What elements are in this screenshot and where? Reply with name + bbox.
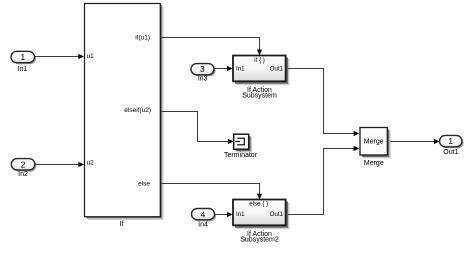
wire Subsystem2 Out1 to Merge in2: [288, 146, 360, 215]
svg-text:if(u1): if(u1): [135, 35, 150, 42]
svg-text:1: 1: [448, 136, 453, 146]
svg-text:In1: In1: [236, 66, 245, 73]
wire In1 to If u1: [35, 54, 85, 59]
svg-text:Out1: Out1: [270, 66, 284, 73]
If Action Subsystem block: [233, 56, 289, 86]
svg-text:4: 4: [201, 209, 206, 219]
wire If if(u1) to Subsystem1 top: [161, 38, 262, 56]
svg-text:u1: u1: [87, 53, 95, 60]
wire If elseif(u2) to Terminator: [161, 112, 234, 145]
If block: [85, 4, 164, 221]
label If Action Subsystem2: [240, 231, 279, 244]
wire In2 to If u2: [35, 162, 84, 167]
If Action Subsystem2 block: [233, 200, 289, 230]
wire In4 to Subsystem2 In1: [215, 212, 233, 217]
merge block: [360, 128, 391, 159]
svg-text:3: 3: [200, 64, 205, 74]
svg-text:In1: In1: [18, 66, 28, 73]
svg-text:Subsystem: Subsystem: [242, 93, 277, 100]
svg-text:u2: u2: [87, 160, 95, 167]
inport In1: [11, 51, 36, 73]
inport In3: [191, 64, 216, 83]
wire In3 to Subsystem1 In1: [214, 66, 233, 71]
wire Merge to Out1: [390, 139, 440, 144]
svg-text:In3: In3: [198, 76, 208, 83]
svg-text:2: 2: [21, 160, 26, 170]
svg-text:In1: In1: [236, 211, 245, 218]
svg-text:Out1: Out1: [443, 149, 458, 156]
svg-text:In4: In4: [198, 221, 208, 228]
label If Action Subsystem: [242, 87, 277, 100]
svg-text:Merge: Merge: [364, 160, 384, 167]
wire If else to Subsystem2 top: [161, 184, 262, 200]
svg-text:if { }: if { }: [254, 57, 265, 64]
svg-text:If: If: [120, 221, 124, 228]
svg-text:Subsystem2: Subsystem2: [240, 237, 279, 244]
wire Subsystem1 Out1 to Merge in1: [288, 69, 360, 137]
svg-text:Merge: Merge: [364, 138, 384, 145]
svg-text:elseif(u2): elseif(u2): [124, 107, 151, 114]
svg-text:Out1: Out1: [270, 211, 284, 218]
inport In2: [11, 159, 36, 179]
outport Out1: [440, 135, 464, 156]
svg-text:else: else: [138, 181, 150, 188]
terminator block: [234, 134, 252, 152]
svg-text:In2: In2: [18, 171, 28, 178]
inport In4: [192, 209, 217, 229]
svg-text:else { }: else { }: [249, 201, 268, 208]
svg-text:1: 1: [20, 52, 25, 62]
terminator icon: [235, 138, 244, 145]
svg-text:Terminator: Terminator: [224, 152, 258, 159]
